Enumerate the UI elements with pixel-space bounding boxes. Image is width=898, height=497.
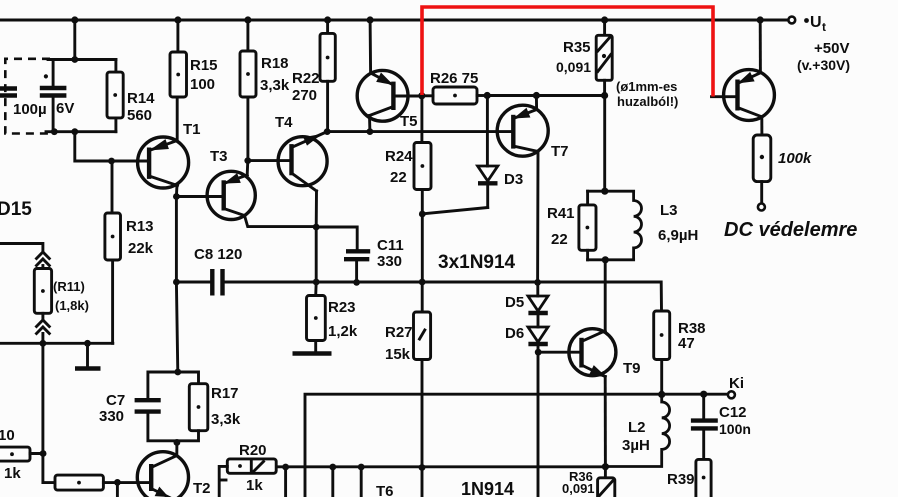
- wire: R35 bottom lead: [603, 80, 606, 95]
- R20 dot: [238, 464, 242, 468]
- dashed box (optional electrolytic): [5, 59, 50, 134]
- wire: T4 collector junction to T7 base: [327, 130, 513, 133]
- svg-text:R18: R18: [261, 55, 289, 72]
- svg-text:0,091: 0,091: [556, 59, 591, 75]
- node: T1 collector / T3 base junction: [173, 193, 180, 200]
- wire: T9 emitter down to output bus: [604, 377, 607, 467]
- output bus y=467: [276, 465, 605, 468]
- wire: R23 top lead: [314, 282, 317, 296]
- diode D3: [478, 166, 498, 208]
- R17 dot: [197, 405, 201, 409]
- resistor (R11) box: [34, 269, 51, 314]
- wire: T6 collector column down: [360, 467, 363, 497]
- svg-text:R14: R14: [127, 90, 155, 107]
- node: T3 collector / T4 base junction: [244, 157, 251, 164]
- svg-text:R35: R35: [563, 39, 591, 56]
- wire: R13 bottom lead: [111, 260, 114, 343]
- R41 dot: [586, 226, 590, 230]
- svg-text:L2: L2: [628, 419, 646, 436]
- svg-text:R41: R41: [547, 205, 575, 222]
- wire: R10 to junction: [30, 452, 43, 455]
- inductor L3: [634, 191, 642, 260]
- capacitor C 100u/6V plates: [40, 88, 67, 96]
- wire: junction down to feedback bus: [421, 214, 424, 282]
- node: dot ground stub: [84, 340, 91, 347]
- wire: node A to R26: [422, 94, 433, 97]
- wire: T2 collector up to C7/R17 node: [175, 441, 178, 456]
- node: dot 54.3,131.7: [51, 128, 58, 135]
- ground below R23: [293, 351, 332, 355]
- transistor output (DC protection driver): [724, 70, 775, 121]
- wire: T5 emitter up to bus: [369, 20, 372, 73]
- RIGHT: [422, 7, 774, 211]
- svg-text:R17: R17: [211, 385, 239, 402]
- R15 dot: [176, 73, 180, 77]
- svg-text:T9: T9: [623, 360, 641, 377]
- svg-text:T4: T4: [275, 114, 293, 131]
- svg-text:R24: R24: [385, 148, 413, 165]
- wire: to T2 base junction: [103, 481, 151, 484]
- resistor R36 box (cut at bottom): [598, 478, 615, 497]
- svg-text:1N914: 1N914: [461, 479, 514, 497]
- BOTTOM: [219, 391, 735, 497]
- R20 divider and slash: [251, 460, 263, 473]
- wire: R26 to node B: [477, 94, 487, 97]
- svg-text:R22: R22: [292, 70, 320, 87]
- svg-text:3x1N914: 3x1N914: [438, 252, 516, 273]
- svg-text:(1,8k): (1,8k): [55, 298, 89, 313]
- wire: T3 collector up to junction: [246, 161, 250, 175]
- node: dot R27 column: [419, 464, 426, 471]
- resistor R38 box: [654, 311, 670, 360]
- wire: bottom bracket of R41/L3: [588, 258, 634, 261]
- node: dot C11 bottom: [353, 279, 360, 286]
- svg-text:t: t: [822, 20, 826, 34]
- svg-text:T1: T1: [183, 121, 201, 138]
- node: R24/D3 junction: [419, 211, 426, 218]
- node: bus junction dots: [71, 16, 764, 23]
- svg-text:R39: R39: [667, 471, 695, 488]
- wire: emitter up to bus: [759, 20, 762, 73]
- node: T5 collector dot: [367, 128, 374, 135]
- wire: top bracket of R41/L3: [588, 190, 634, 193]
- node: R38/L2 junction: [658, 391, 665, 398]
- svg-text:C8 120: C8 120: [194, 246, 242, 263]
- chevron marks above (R11): [37, 252, 50, 266]
- resistor R35 wire-wound top lead: [603, 20, 606, 35]
- svg-text:3,3k: 3,3k: [211, 411, 241, 428]
- red modification wire (bracket): [422, 7, 713, 97]
- node: dot T6 base column: [329, 464, 336, 471]
- svg-text:T3: T3: [210, 148, 228, 165]
- wire: ground bus y=343: [0, 342, 113, 345]
- wire: D5-D6 link: [537, 313, 540, 327]
- wire: C11 bottom lead: [355, 261, 358, 283]
- node: L3/R41 top junction: [601, 188, 608, 195]
- wire: D5 top lead: [536, 282, 539, 296]
- wire: R15 bottom to T1 emitter: [176, 97, 179, 141]
- wire: bus drop to C100u/R14 block: [73, 20, 76, 60]
- wire: R15 top lead: [176, 20, 179, 52]
- svg-text:T5: T5: [400, 113, 418, 130]
- svg-text:100µ: 100µ: [13, 101, 47, 118]
- wire: T5 base to node A: [393, 95, 421, 98]
- wire: T5 collector down to y132 line: [368, 116, 371, 132]
- wire: R27 bottom long lead to 1N914 bus: [421, 360, 424, 497]
- R23 dot: [314, 316, 318, 320]
- resistor R10 (edge, cut) box: [0, 447, 30, 461]
- (R11) dot: [41, 289, 45, 293]
- capacitor (edge, cut) plates: [0, 89, 17, 96]
- resistor R14 branch wires: [114, 60, 117, 132]
- svg-text:100: 100: [190, 76, 215, 93]
- wire: D6 to T9 base junction and down: [537, 344, 540, 497]
- svg-text:1k: 1k: [246, 477, 263, 494]
- wire: R41 bottom lead: [586, 250, 589, 259]
- resistor R17 box: [189, 384, 208, 431]
- node: dot (R11) column: [40, 340, 47, 347]
- resistor R35 box: [596, 35, 612, 80]
- wire: junction down to T9 collector: [604, 260, 607, 331]
- feedback bus y=282 (left of C8): [176, 281, 210, 284]
- terminal Ki open circle: [728, 391, 735, 398]
- transistor T1: [138, 137, 189, 188]
- node: T3/T4 emitter/C11 node: [313, 224, 320, 231]
- wire: C12 top lead: [702, 394, 705, 419]
- node: L3/R41 bottom junction: [602, 256, 609, 263]
- wire: T4 emitter down to node: [315, 191, 318, 227]
- resistor R20 box: [227, 459, 276, 473]
- wire: T7 emitter down to bus: [536, 152, 539, 283]
- node: dot T6 collector column: [358, 464, 365, 471]
- R24 dot: [421, 164, 425, 168]
- node: C7/R17 top node: [174, 369, 181, 376]
- wire: C7 branch top: [148, 372, 178, 399]
- wire: block bottom rail: [46, 130, 116, 133]
- chevron marks below (R11): [37, 320, 50, 334]
- inductor L2: [605, 394, 669, 466]
- transistor T9: [569, 329, 616, 377]
- wire: T3 emitter to C11 node: [245, 216, 317, 227]
- wire: R41 top lead: [586, 191, 589, 205]
- resistor R27 box: [414, 312, 431, 360]
- svg-text:+50V: +50V: [814, 40, 849, 57]
- node: R10 junction dot: [40, 450, 47, 457]
- R10 dot: [10, 452, 14, 456]
- svg-text:R26 75: R26 75: [430, 70, 478, 87]
- capacitor C8 plates: [212, 269, 222, 296]
- terminal Ut open circle: [788, 17, 795, 24]
- svg-text:T7: T7: [551, 143, 569, 160]
- terminal: open circle DC protection: [758, 204, 765, 211]
- ground bar: [75, 366, 101, 370]
- wire: junction to T3 base: [176, 195, 223, 198]
- node: R20 right junction: [282, 464, 289, 471]
- svg-text:D5: D5: [505, 294, 524, 311]
- 100k dot: [760, 155, 764, 159]
- svg-text:3µH: 3µH: [622, 437, 650, 454]
- svg-text:330: 330: [99, 408, 124, 425]
- transistor T4: [278, 132, 327, 191]
- tick mark near R20: [222, 479, 227, 482]
- node: dot at 176.4,282: [173, 279, 180, 286]
- wire: T2 base junction stub down: [116, 482, 119, 497]
- svg-text:DC védelemre: DC védelemre: [724, 219, 857, 241]
- resistor R39 box (cut at bottom): [696, 459, 711, 497]
- capacitor C12 plates: [691, 421, 718, 429]
- wire: R22 bottom lead: [326, 81, 329, 131]
- transistor T2 (cut at bottom): [137, 452, 188, 497]
- wire: bus down to R27: [421, 282, 424, 312]
- node: dot T7 emitter / D5: [534, 279, 541, 286]
- wire: T6 base column down: [331, 467, 334, 497]
- node A: T5 base / R26 / red mod junction: [418, 92, 425, 99]
- node: T7 collector junction: [533, 92, 540, 99]
- wire: feedback column down to C7/R17 top node: [176, 282, 177, 372]
- wire: R36 stub: [604, 467, 607, 478]
- svg-text:22k: 22k: [128, 240, 154, 257]
- wire: R20 left lead down: [219, 466, 227, 497]
- capacitor C7 plates: [135, 400, 161, 411]
- wire: 100k bottom lead: [760, 182, 763, 204]
- wire: R24 bottom lead: [421, 190, 424, 215]
- svg-text:R27: R27: [385, 324, 413, 341]
- resistor R23 box: [307, 296, 326, 341]
- svg-text:0,091: 0,091: [562, 481, 595, 496]
- R27 slash mark: [420, 330, 425, 339]
- diode D5: [528, 296, 548, 313]
- svg-text:R15: R15: [190, 57, 218, 74]
- resistor R14 box: [107, 72, 123, 118]
- resistor (T2 base) box: [55, 475, 103, 490]
- svg-text:3,3k: 3,3k: [260, 77, 290, 94]
- wire: R13 top lead from T1 base junction: [111, 161, 114, 213]
- wire: collector down to 100k: [760, 117, 763, 135]
- resistor 100k box: [753, 135, 771, 182]
- svg-text:270: 270: [292, 87, 317, 104]
- wire: chevrons to (R11) top: [41, 266, 44, 269]
- svg-text:100k: 100k: [778, 150, 812, 167]
- transistor T5: [357, 70, 408, 121]
- node: T9 emitter / R36 / L2 junction: [602, 463, 609, 470]
- node: T9 base junction: [535, 349, 542, 356]
- wire: C7 bottom lead: [148, 413, 177, 441]
- R13 dot: [111, 235, 115, 239]
- wire: R18 bottom to T3 collector junction: [246, 97, 249, 161]
- svg-text:22: 22: [551, 231, 568, 248]
- R35 slashes and dot: [598, 36, 611, 71]
- wire: node B rail to R35 bottom: [487, 94, 604, 97]
- svg-text:22: 22: [390, 169, 407, 186]
- wire: node A down to R24: [420, 96, 423, 143]
- wire: C11 top hook: [316, 227, 357, 250]
- R36 slash: [600, 481, 614, 496]
- node: dot T4emitter/R23 column: [313, 279, 320, 286]
- wire: cap top lead: [52, 60, 55, 87]
- svg-text:R23: R23: [328, 299, 356, 316]
- wire: (R11) bottom to bus: [41, 313, 44, 343]
- svg-text:(R11): (R11): [53, 279, 85, 294]
- diode D6: [528, 327, 548, 344]
- wire: R22 top lead: [326, 20, 329, 33]
- node: R35 bottom junction: [601, 92, 608, 99]
- capacitor C11 plates: [344, 251, 370, 259]
- svg-text:huzalból!): huzalból!): [617, 94, 678, 109]
- node: T1 base / R13 junction: [108, 158, 115, 165]
- node: dot at 74.8,59.5: [71, 56, 78, 63]
- base resistor dot: [77, 481, 81, 485]
- svg-text:C7: C7: [106, 392, 125, 409]
- wire: T1 collector down to T3 base junction: [175, 185, 179, 283]
- svg-text:(v.+30V): (v.+30V): [797, 57, 850, 73]
- node: dot 74.8,131.7: [71, 128, 78, 135]
- resistor R41 box: [579, 205, 596, 250]
- R18 dot: [246, 72, 250, 76]
- wire: output bus y=394: [305, 394, 728, 497]
- R26 dot: [453, 94, 457, 98]
- svg-text:47: 47: [678, 335, 695, 352]
- svg-text:15k: 15k: [385, 346, 411, 363]
- node B: R26/D3/T7 collector rail: [484, 92, 491, 99]
- resistor R22 box: [320, 33, 335, 81]
- svg-text:C11: C11: [377, 237, 404, 254]
- wire: cap bottom lead: [52, 97, 55, 132]
- label Ut: [804, 18, 809, 23]
- R14 dot: [113, 93, 117, 97]
- svg-text:6,9µH: 6,9µH: [658, 227, 698, 244]
- R22 dot: [326, 56, 330, 60]
- wire: rail down to L3/R41 block: [603, 96, 606, 192]
- svg-text:D3: D3: [504, 171, 523, 188]
- svg-text:D15: D15: [0, 199, 32, 220]
- LEFT-COLUMN: [0, 161, 208, 497]
- WIRES-TOP: [0, 16, 795, 282]
- node: R22 / T4 collector junction: [324, 128, 331, 135]
- svg-text:330: 330: [377, 253, 402, 270]
- svg-text:T2: T2: [193, 480, 211, 497]
- node: bus dot at R24/R27 column: [419, 279, 426, 286]
- wire: R38 top lead from feedback bus corner: [660, 310, 663, 313]
- wire: R20 column down: [284, 467, 287, 497]
- svg-text:100n: 100n: [719, 421, 751, 437]
- wire: D3 top lead from node B: [486, 96, 489, 167]
- polarity dot: [44, 74, 48, 78]
- svg-text:U: U: [810, 14, 822, 31]
- wire: left input wire to (R11): [0, 244, 43, 253]
- resistor R15 box: [170, 52, 187, 97]
- wire: block top rail: [48, 58, 116, 61]
- svg-text:C12: C12: [719, 404, 747, 421]
- svg-text:R20: R20: [239, 442, 267, 459]
- wire: T9 base lead: [538, 351, 581, 354]
- wire: R23 to ground: [314, 341, 317, 352]
- svg-text:D6: D6: [505, 325, 524, 342]
- node: C7/R17 bottom node: [174, 439, 181, 446]
- resistor R18 box: [240, 51, 256, 97]
- resistor R26 box (horizontal): [433, 87, 477, 104]
- wire: R38 bottom lead: [660, 360, 663, 395]
- R39 dot: [702, 476, 706, 480]
- wire: D3 bottom slant to R24 junction: [423, 208, 488, 214]
- wire: down to T1 base: [75, 132, 149, 161]
- svg-text:(ø1mm-es: (ø1mm-es: [616, 79, 677, 94]
- wire: output transistor base stub: [712, 95, 738, 98]
- resistor R13 box: [105, 213, 121, 260]
- svg-text:1k: 1k: [4, 465, 21, 482]
- wire: R17 bottom lead: [177, 431, 199, 441]
- wire: +50V top supply bus: [0, 19, 790, 22]
- svg-text:560: 560: [127, 107, 152, 124]
- ground symbol stub: [86, 343, 89, 367]
- transistor T7: [497, 105, 548, 156]
- svg-text:6V: 6V: [56, 100, 74, 117]
- feedback bus y=282 (right of C8): [224, 282, 661, 311]
- node: T2 base junction: [114, 479, 121, 486]
- wire: C12 bottom to R39: [702, 430, 705, 460]
- svg-text:L3: L3: [660, 202, 678, 219]
- wire: R17 branch top: [178, 372, 199, 384]
- wire: node down to feedback bus: [315, 227, 318, 282]
- wire: R18 top lead: [246, 20, 249, 51]
- svg-text:R13: R13: [126, 218, 154, 235]
- node: C12 junction: [700, 391, 707, 398]
- wire: T7 collector up to rail: [535, 96, 538, 110]
- svg-text:1,2k: 1,2k: [328, 323, 358, 340]
- resistor R24 box: [414, 143, 431, 190]
- svg-text:10: 10: [0, 427, 15, 444]
- svg-text:T6: T6: [376, 483, 394, 497]
- R38 dot: [660, 333, 664, 337]
- MIDDLE: [173, 20, 670, 497]
- wire: junction to T4 base: [248, 159, 292, 162]
- transistor T3: [207, 171, 255, 219]
- svg-text:Ki: Ki: [729, 375, 744, 392]
- wire: (R11) column continues down to R10 junction: [43, 343, 55, 482]
